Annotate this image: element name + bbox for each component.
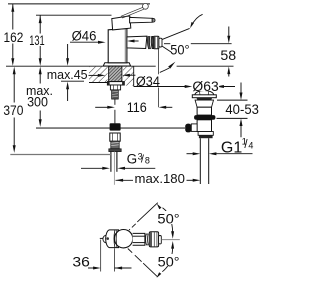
plan: arc upper [163,208,173,233]
svg-text:Ø46: Ø46 [72,29,97,44]
seal ring (black) [194,115,215,120]
waste flange [192,95,216,98]
plan: joint rings [146,234,149,245]
flange taper [195,100,213,107]
deck right edge [133,66,135,86]
plan: body cylinder [106,230,119,248]
svg-text:300: 300 [27,95,48,110]
plan: aerator [149,232,158,247]
dim G1 1/4 [187,153,195,155]
spout tube [127,36,147,48]
arc arrow upper [192,14,203,25]
svg-text:max.45: max.45 [47,67,88,82]
svg-text:40-53: 40-53 [225,102,259,117]
svg-text:4: 4 [248,140,253,150]
lever (horizontal) [130,17,153,23]
faucet base plate [103,63,130,66]
bottom rim [198,132,213,136]
mounting washer [107,82,124,85]
dim 36 [100,240,102,272]
dim 40-53 [217,99,248,101]
arc arrow lower [160,68,170,72]
flexible hoses [110,152,112,172]
G3/8 connection: flange [109,149,121,152]
label 50deg upper [156,211,180,224]
waste body lower [197,120,211,132]
plan: swivel ray up [128,228,131,231]
hex nut [110,85,120,90]
threaded stud [112,90,119,99]
locknut (dark) [199,135,213,138]
pop-up rod (horizontal, gray) [36,127,185,129]
svg-text:50°: 50° [170,42,189,57]
dim Ø34 [135,74,164,85]
svg-text:116: 116 [127,100,147,115]
dim Ø63 [134,86,186,88]
svg-text:50°: 50° [157,211,179,226]
svg-text:162: 162 [4,30,24,45]
dim 162 [12,4,14,29]
svg-text:370: 370 [3,103,23,118]
plan: centerline tick [100,237,106,239]
rod clamp [110,123,121,130]
plan: pop-up knob [103,235,111,243]
aerator tip [159,38,162,47]
svg-text:G1: G1 [221,139,242,156]
dim max.45 [67,44,69,60]
plan: arc lower [162,247,172,271]
dim G3/8 [81,167,104,169]
faucet body [108,28,127,62]
svg-text:G: G [127,152,138,167]
aerator body [153,36,159,48]
extension line: lever top (162) [8,3,150,5]
pull rod [114,99,116,105]
G3/8 connection: hex [110,133,120,141]
plan: spout tube [133,233,145,245]
side port [191,124,197,131]
tailpipe [199,138,201,184]
svg-text:8: 8 [145,155,150,165]
plan: axis line right [161,239,179,241]
rod ball knob (black) [185,124,191,133]
threaded shank through deck [109,66,122,81]
label 50deg lower [156,254,180,266]
waste body upper [197,107,211,115]
cartridge cap [112,16,131,30]
plan: body circle [114,230,132,248]
svg-text:36: 36 [72,255,90,270]
dim 370 [13,70,15,103]
svg-text:Ø63: Ø63 [192,79,218,94]
dim 116 [158,49,160,75]
waste slot (dark) [196,98,212,100]
svg-text:50°: 50° [158,254,180,269]
extension line: body top (131) [36,14,112,16]
svg-text:max.180: max.180 [135,171,185,186]
svg-text:58: 58 [220,48,236,63]
dim 131 [39,16,41,34]
plan: swivel ray down [128,249,132,253]
dim max.180 [116,179,124,182]
deck cross-section right hatch [123,67,134,86]
deck cross-section left hatch [89,67,108,83]
dim max.300 [39,70,41,84]
ball joint rings [147,37,150,49]
spray angle ray up [162,28,190,39]
hose end reference line [10,154,111,156]
spray angle ray down [162,46,172,53]
dim 58 [164,43,170,45]
svg-text:131: 131 [29,33,45,48]
deck surface line [6,65,156,67]
plan: aerator tip [159,236,162,244]
lever raised (phantom) [121,7,143,16]
waste plug dome [195,91,214,95]
G3/8 connection: thread [111,141,119,149]
